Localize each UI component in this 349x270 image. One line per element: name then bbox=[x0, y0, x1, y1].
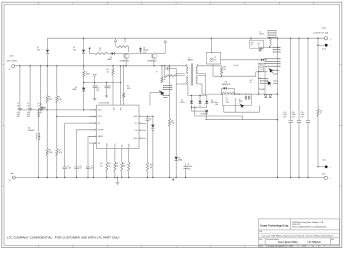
svg-text:C11: C11 bbox=[257, 42, 260, 44]
svg-text:E1: E1 bbox=[9, 69, 11, 71]
wire driver bottom bbox=[223, 105, 225, 112]
capacitor C12 bbox=[290, 38, 292, 120]
svg-text:R1: R1 bbox=[49, 97, 51, 99]
svg-text:RGF1J: RGF1J bbox=[180, 102, 185, 104]
svg-text:Phone: (408)432-1900 Fax: (408: Phone: (408)432-1900 Fax: (408)434-0507 bbox=[292, 227, 326, 229]
ground G4 bbox=[259, 48, 261, 49]
svg-text:D11: D11 bbox=[225, 82, 228, 84]
transistor Q4 bbox=[37, 110, 39, 132]
svg-text:24.9k: 24.9k bbox=[59, 152, 63, 154]
svg-text:U1 LT1725CGN: U1 LT1725CGN bbox=[99, 103, 110, 105]
wire ic left pin4 drop bbox=[77, 129, 97, 131]
wire cap node bus bbox=[18, 109, 97, 111]
svg-text:Q6: Q6 bbox=[239, 99, 241, 101]
svg-text:Linear Technology Corp.: Linear Technology Corp. bbox=[260, 225, 289, 227]
wire ic left pin6 drop bbox=[94, 142, 97, 144]
pin SG bbox=[89, 122, 97, 124]
svg-text:1206: 1206 bbox=[17, 116, 20, 118]
wire chain bbox=[124, 53, 152, 55]
svg-text:MM3Z: MM3Z bbox=[73, 89, 77, 91]
resistor R12 bbox=[114, 149, 116, 163]
terminal E4 S+ bbox=[318, 44, 325, 46]
svg-text:VREF: VREF bbox=[114, 107, 116, 111]
svg-text:10: 10 bbox=[251, 45, 253, 47]
svg-text:E2: E2 bbox=[9, 180, 11, 182]
pin OVLO bbox=[89, 116, 97, 118]
svg-text:R16: R16 bbox=[223, 67, 226, 69]
svg-text:R4: R4 bbox=[59, 150, 61, 152]
svg-text:36 to 72Vin: 36 to 72Vin bbox=[7, 59, 17, 62]
svg-text:Demo Board 509A: Demo Board 509A bbox=[278, 241, 298, 244]
svg-text:R19: R19 bbox=[258, 78, 261, 80]
pin FB bbox=[89, 142, 97, 144]
svg-text:U3: U3 bbox=[226, 98, 228, 100]
diode D1 bbox=[47, 38, 49, 49]
svg-text:C5: C5 bbox=[68, 165, 70, 167]
svg-text:Low Cost, High Effiency Synchr: Low Cost, High Effiency Synchronous Forw… bbox=[262, 235, 334, 238]
svg-text:10: 10 bbox=[99, 50, 101, 52]
svg-text:R5: R5 bbox=[40, 104, 42, 106]
power flag F1 bbox=[114, 39, 117, 42]
terminal E2 -VIN bbox=[12, 176, 15, 179]
opto U2 bbox=[210, 38, 212, 52]
svg-text:100V: 100V bbox=[187, 168, 190, 170]
gate marks bbox=[163, 94, 169, 96]
wire pgnd bbox=[139, 137, 146, 139]
svg-text:Rev: Rev bbox=[331, 239, 334, 241]
pack RP2 bbox=[260, 78, 267, 80]
transistor Q1 bbox=[124, 53, 130, 59]
wire +VIN bus bbox=[15, 65, 187, 67]
svg-text:D7: D7 bbox=[181, 100, 183, 102]
svg-text:R6: R6 bbox=[99, 48, 101, 50]
pack RP4 bbox=[274, 46, 281, 48]
svg-text:RTSET: RTSET bbox=[115, 143, 117, 147]
wire gate out bbox=[139, 115, 153, 117]
svg-text:SGND: SGND bbox=[128, 144, 130, 148]
svg-text:FB: FB bbox=[98, 143, 100, 145]
svg-text:P0751.: P0751. bbox=[260, 34, 265, 36]
svg-text:100uH: 100uH bbox=[86, 74, 90, 76]
svg-text:100uF: 100uF bbox=[283, 114, 287, 116]
wire mid rail bbox=[212, 64, 214, 76]
svg-text:0.1uF: 0.1uF bbox=[96, 88, 100, 90]
transistor Q2 bbox=[151, 53, 157, 59]
svg-text:C14+: C14+ bbox=[301, 112, 304, 114]
svg-text:D3: D3 bbox=[110, 57, 112, 59]
resistor pack RP1 bbox=[163, 84, 171, 86]
svg-text:C13+: C13+ bbox=[292, 112, 295, 114]
svg-text:1206: 1206 bbox=[27, 116, 30, 118]
svg-text:2k: 2k bbox=[124, 41, 126, 43]
ground G3 bbox=[172, 178, 174, 180]
capacitor C6 bbox=[74, 166, 78, 168]
svg-text:33.2k: 33.2k bbox=[115, 165, 119, 167]
svg-text:R?: R? bbox=[156, 72, 158, 74]
svg-text:R3: R3 bbox=[49, 150, 51, 152]
svg-text:Tuesday, December 17, 2002: Tuesday, December 17, 2002 bbox=[266, 246, 293, 248]
svg-text:0.047uF: 0.047uF bbox=[187, 166, 192, 168]
resistor R14 bbox=[128, 149, 130, 163]
svg-text:C8: C8 bbox=[187, 164, 189, 166]
svg-text:10k: 10k bbox=[107, 71, 110, 73]
svg-text:ISNS: ISNS bbox=[122, 144, 124, 147]
svg-text:LTC COMPANY CONFIDENTIAL -: LTC COMPANY CONFIDENTIAL - FOR CUSTOMER … bbox=[7, 237, 121, 240]
diode D10 bbox=[261, 59, 263, 62]
wire secondary taps bbox=[197, 73, 205, 75]
transistor Q3 bbox=[161, 91, 165, 95]
svg-text:L3: L3 bbox=[86, 71, 88, 73]
svg-text:0.1uF: 0.1uF bbox=[27, 112, 31, 114]
svg-text:0.1uF: 0.1uF bbox=[68, 168, 72, 170]
svg-text:D12: D12 bbox=[259, 64, 262, 66]
wire ton2 bbox=[139, 129, 146, 131]
svg-text:16.9k: 16.9k bbox=[122, 165, 126, 167]
svg-text:FMMT: FMMT bbox=[239, 101, 243, 103]
svg-text:1uF: 1uF bbox=[257, 45, 259, 47]
svg-text:C2: C2 bbox=[27, 103, 29, 105]
wire clamp column bbox=[175, 84, 177, 156]
wire sec top bbox=[198, 65, 222, 67]
wire ic left pin5 drop bbox=[88, 135, 97, 137]
wire sync column bbox=[277, 38, 279, 177]
wire sync drive lower bbox=[205, 119, 278, 121]
wire vcc pin bbox=[120, 66, 122, 105]
snubber R22 bbox=[165, 75, 176, 77]
wire gate return bbox=[150, 92, 161, 94]
svg-text:D6: D6 bbox=[178, 157, 180, 159]
svg-text:10k: 10k bbox=[223, 69, 226, 71]
svg-text:1206: 1206 bbox=[37, 116, 40, 118]
rectifier diodes D7 D8 D9 bbox=[187, 84, 189, 95]
pin VCC bbox=[139, 122, 140, 124]
svg-text:L1: L1 bbox=[260, 31, 262, 33]
svg-text:1uF: 1uF bbox=[17, 105, 20, 107]
inductor L4 bbox=[222, 93, 235, 95]
zener D4 bbox=[140, 47, 142, 54]
svg-text:L2 1uH: L2 1uH bbox=[234, 65, 239, 67]
svg-text:R8: R8 bbox=[107, 69, 109, 71]
driver box U3 bbox=[222, 94, 251, 105]
svg-text:C17: C17 bbox=[150, 119, 153, 121]
capacitor C8 bbox=[185, 164, 187, 167]
zener D6 bbox=[175, 157, 178, 160]
svg-text:10: 10 bbox=[320, 113, 322, 115]
wire -VIN / return bus bbox=[15, 177, 323, 179]
svg-text:Si4480DY: Si4480DY bbox=[28, 130, 35, 132]
capacitor C3 bbox=[39, 66, 41, 108]
svg-text:LTC: LTC bbox=[226, 100, 229, 102]
svg-text:MBRM140T3: MBRM140T3 bbox=[222, 84, 230, 86]
transistor Q7 bbox=[270, 69, 274, 73]
capacitor C17 bbox=[147, 116, 149, 118]
svg-text:X7R: X7R bbox=[96, 90, 99, 92]
svg-text:LT1725EGN: LT1725EGN bbox=[308, 241, 321, 244]
svg-text:R14: R14 bbox=[122, 163, 125, 165]
svg-text:T1: T1 bbox=[188, 57, 190, 59]
svg-text:R7: R7 bbox=[124, 39, 126, 41]
resistor R13 bbox=[121, 149, 123, 163]
svg-text:R11: R11 bbox=[100, 163, 103, 165]
resistor R21 bbox=[168, 119, 170, 127]
terminal E1 +VIN bbox=[12, 65, 15, 68]
ground G2 bbox=[117, 178, 119, 182]
wire primary taps bbox=[176, 73, 184, 75]
svg-text:Q2 MMBT5401: Q2 MMBT5401 bbox=[147, 60, 157, 62]
caps C9 C10 bbox=[244, 96, 246, 100]
svg-text:PGND: PGND bbox=[133, 138, 137, 140]
power flag F3 bbox=[93, 74, 97, 77]
transistor Q6 arrow bbox=[241, 104, 244, 107]
svg-text:C1: C1 bbox=[17, 103, 19, 105]
svg-text:ROCMP: ROCMP bbox=[98, 130, 103, 132]
pin ROCMP bbox=[89, 129, 97, 131]
resistor R10 bbox=[161, 66, 163, 77]
svg-text:D2: D2 bbox=[73, 47, 75, 49]
svg-text:D8: D8 bbox=[211, 100, 213, 102]
svg-text:0.1uF: 0.1uF bbox=[91, 168, 95, 170]
svg-text:C4: C4 bbox=[96, 85, 98, 87]
capacitor C2 bbox=[29, 66, 31, 108]
node UVLO junction bbox=[47, 109, 48, 110]
transistor Q5 sense bbox=[191, 107, 193, 111]
resistor R7 bbox=[117, 46, 129, 48]
capacitor C14 bbox=[307, 38, 309, 120]
pin GATE bbox=[139, 116, 140, 118]
op IC U1 LT1725 bbox=[97, 105, 140, 148]
diode D2 bbox=[83, 38, 85, 49]
inductor L3 bbox=[83, 66, 85, 71]
svg-text:10k: 10k bbox=[108, 165, 110, 167]
wire OVLO tap bbox=[57, 116, 97, 118]
svg-text:VCC: VCC bbox=[134, 123, 137, 125]
svg-text:R15: R15 bbox=[150, 165, 153, 167]
svg-text:10k: 10k bbox=[150, 167, 152, 169]
wire aux col bbox=[169, 66, 171, 119]
resistor R3 bbox=[46, 149, 48, 157]
svg-text:1uF: 1uF bbox=[79, 168, 81, 170]
svg-text:1uF: 1uF bbox=[27, 105, 30, 107]
svg-text:2.5V/3.3V @ 10A: 2.5V/3.3V @ 10A bbox=[313, 32, 328, 35]
diode D11 bbox=[222, 87, 224, 89]
svg-text:R20: R20 bbox=[320, 110, 323, 112]
svg-text:100uF: 100uF bbox=[292, 114, 296, 116]
power flag F2 bbox=[156, 53, 165, 55]
svg-text:24.9k: 24.9k bbox=[49, 152, 53, 154]
wire ic left pin3 drop bbox=[65, 122, 97, 124]
svg-text:Q1 MMBT5401: Q1 MMBT5401 bbox=[120, 60, 130, 62]
wire ton bbox=[139, 122, 146, 124]
svg-text:6.3V: 6.3V bbox=[283, 116, 286, 118]
pin TON bbox=[139, 129, 140, 131]
svg-text:10k: 10k bbox=[100, 165, 102, 167]
sync FET block bbox=[265, 58, 280, 60]
svg-text:C7: C7 bbox=[91, 165, 93, 167]
transistor Q8 bbox=[268, 81, 271, 85]
svg-text:6.3V: 6.3V bbox=[301, 116, 304, 118]
resistor R4 bbox=[56, 149, 58, 157]
svg-text:MINEN: MINEN bbox=[98, 136, 103, 138]
svg-text:100uF: 100uF bbox=[301, 114, 305, 116]
svg-text:R18: R18 bbox=[251, 42, 254, 44]
wire L1 node bbox=[258, 46, 274, 48]
pin PGND bbox=[139, 137, 140, 139]
capacitor C13 bbox=[298, 38, 300, 120]
svg-text:D13 MBR: D13 MBR bbox=[259, 89, 265, 91]
svg-text:100k: 100k bbox=[171, 123, 174, 125]
diode D3 BAS21 bbox=[108, 53, 112, 55]
wire primary bottom bbox=[176, 83, 188, 85]
title block bbox=[259, 219, 340, 247]
zener D5 bbox=[82, 88, 86, 91]
svg-text:D1: D1 bbox=[37, 47, 39, 49]
wire R6 feed bbox=[89, 48, 91, 50]
svg-text:0.1uF: 0.1uF bbox=[17, 112, 21, 114]
wire clamp rail bbox=[48, 37, 326, 39]
pin MINEN bbox=[89, 135, 97, 137]
secondary ground bus with L4 bbox=[198, 83, 202, 85]
svg-text:100V: 100V bbox=[37, 114, 40, 116]
svg-text:TON: TON bbox=[134, 130, 137, 132]
svg-text:C16: C16 bbox=[108, 85, 111, 87]
svg-text:PS: PS bbox=[214, 60, 216, 62]
wire vcc node bbox=[84, 82, 121, 84]
svg-text:RGF1J: RGF1J bbox=[211, 102, 216, 104]
svg-text:D5: D5 bbox=[75, 87, 77, 89]
resistor R9 bbox=[123, 66, 125, 92]
wire gate feed bbox=[194, 107, 196, 116]
wire aux out bbox=[221, 59, 267, 61]
resistor R6 bbox=[94, 53, 108, 55]
svg-text:49.9k: 49.9k bbox=[127, 88, 131, 90]
resistor R8 bbox=[112, 66, 114, 68]
svg-text:95035-7417: 95035-7417 bbox=[292, 224, 300, 226]
svg-text:Q4: Q4 bbox=[28, 128, 30, 130]
capacitor C4 bbox=[94, 83, 96, 86]
svg-text:C6: C6 bbox=[79, 165, 81, 167]
svg-text:R13: R13 bbox=[115, 163, 118, 165]
svg-text:100V: 100V bbox=[27, 114, 30, 116]
snubber C18 bbox=[164, 66, 166, 76]
pin UVLO bbox=[89, 109, 97, 111]
resistor R20 bbox=[317, 38, 319, 108]
svg-text:1693: 1693 bbox=[226, 102, 229, 104]
svg-text:Size: Size bbox=[259, 239, 262, 241]
svg-text:R12: R12 bbox=[108, 163, 111, 165]
flag F4 bbox=[260, 49, 263, 51]
svg-text:R17: R17 bbox=[250, 80, 253, 82]
capacitor C1 bbox=[19, 66, 21, 108]
capacitor C5 bbox=[63, 166, 67, 168]
svg-text:D4: D4 bbox=[143, 47, 145, 49]
resistor R1 bbox=[46, 66, 48, 96]
snubber box R18 C11 bbox=[250, 38, 252, 40]
resistor R11 bbox=[106, 149, 108, 163]
svg-text:1uF: 1uF bbox=[108, 88, 110, 90]
capacitor C16 bbox=[106, 83, 108, 86]
diodes D14 D15 bbox=[264, 95, 267, 98]
svg-text:R2: R2 bbox=[58, 97, 60, 99]
svg-text:C12+: C12+ bbox=[283, 112, 286, 114]
svg-text:6.3V: 6.3V bbox=[292, 116, 295, 118]
svg-text:BZX84C: BZX84C bbox=[143, 50, 148, 52]
marks bbox=[215, 102, 218, 104]
svg-text:R21: R21 bbox=[171, 120, 174, 122]
svg-text:R9: R9 bbox=[127, 86, 129, 88]
ground G1 bbox=[93, 98, 97, 100]
resistor R16 bbox=[221, 66, 223, 67]
svg-text:100V: 100V bbox=[17, 114, 20, 116]
pack RP3 bbox=[268, 30, 276, 32]
svg-text:SYNC: SYNC bbox=[121, 107, 123, 111]
svg-text:U2: U2 bbox=[214, 57, 216, 59]
zener D16 bbox=[152, 116, 154, 124]
resistor R15 bbox=[146, 162, 148, 172]
resistor R2 bbox=[56, 66, 58, 96]
